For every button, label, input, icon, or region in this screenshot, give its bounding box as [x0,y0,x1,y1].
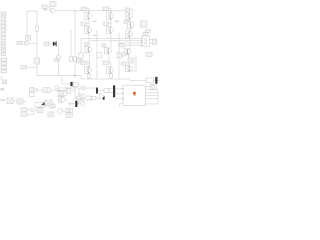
capacitor C13 [78,94,84,99]
net label K2 [146,53,152,57]
capacitor C20 [113,85,115,97]
wire [49,43,53,45]
net label NL1 [17,41,24,45]
wire [96,30,98,79]
wire [150,43,153,45]
wire [118,42,142,44]
capacitor C17 [66,108,72,112]
wire [145,103,158,105]
diode bridge D1 [7,98,13,104]
op-amp U2 [58,97,66,104]
op-amp U3 [100,93,105,99]
wire [70,30,72,57]
wire [74,11,76,76]
wire [27,10,37,12]
pin wire [145,86,150,88]
capacitor C22 [30,92,35,96]
resistor R4 [146,78,153,83]
resistor R1 [36,26,39,31]
wire [42,104,50,106]
net label J10 [1,49,6,52]
value text V4 [115,21,119,23]
resistor R8 [86,96,103,100]
net label K1top [143,33,148,36]
value text V5 [93,35,97,37]
wire [59,87,96,89]
wire [157,90,159,104]
wire [89,40,142,42]
wire [118,44,142,46]
transistor Q11 [105,33,112,63]
transistor Q21 [57,108,66,113]
diode D6 [36,88,39,91]
net label J7 [1,37,6,40]
pin wire [145,92,158,94]
wire [36,11,38,76]
transistor Q17 [126,65,133,72]
net label K1aux [146,30,151,33]
resistor R10 [79,53,84,58]
resistor R12 [117,53,122,58]
transistor Q15 [126,31,133,51]
net label J1 [1,12,7,15]
transistor Q1 [50,8,55,13]
net label J2 [1,16,7,19]
ground GND1 [2,76,7,84]
capacitor C18 [66,113,72,117]
diode bridge D5 [30,88,35,92]
transistor Q19 [63,92,67,96]
wire [57,44,59,55]
net label NL9 [21,112,34,116]
net label NL7 [121,62,127,66]
diode D4 [41,102,45,105]
net label J8 [1,41,6,44]
net label J4 [1,24,7,27]
resistor R7 [40,88,59,93]
pin wire [145,98,158,100]
wire [80,39,82,54]
wire [75,10,89,12]
capacitor C2 [50,2,56,7]
transistor Q10 [107,27,114,34]
net label NL5 [120,44,125,47]
capacitor C14 [78,99,84,104]
relay K1 [141,36,150,47]
capacitor C16 [70,102,73,106]
pin wire [145,89,158,91]
net label NL3 [44,42,49,46]
net label P4 [1,70,7,73]
net label B5 [103,7,111,13]
net label IN [42,5,47,9]
wire [13,100,17,102]
wire [48,3,51,5]
transistor Q16 [124,48,131,65]
connector X1 [153,39,157,44]
value text V3 [93,21,97,23]
wire [62,76,70,84]
diode D3 [45,100,52,106]
wire [130,55,136,71]
resistor R11 [97,53,102,58]
net label J11 [1,53,6,56]
net label P3 [1,66,7,69]
capacitor C7 [141,21,148,28]
net label N1 [0,88,4,91]
resistor R9 [104,88,114,92]
capacitor C4 [77,58,82,63]
junction [65,87,66,88]
wire [29,42,37,44]
wire [68,103,75,105]
capacitor C19 [96,88,98,94]
transistor Q9 [107,11,114,27]
wire [115,88,123,90]
resistor R5 [88,73,91,79]
transistor Q2 [24,41,28,45]
wire [123,79,160,81]
wire [59,89,75,91]
capacitor C12 [48,112,54,117]
capacitor C1 [17,99,23,104]
transistor Q12 [107,67,114,74]
capacitor C21 [150,84,156,89]
junction [110,10,111,11]
wire [78,83,80,85]
wire [115,98,123,100]
junction [88,10,89,11]
value text V1 [0,99,5,101]
resistor R14 [67,89,70,93]
net label B3 [84,42,89,45]
value text V2 [44,9,48,11]
pin wire [145,95,158,97]
junction [74,75,76,77]
capacitor C6 [155,77,157,84]
wire [89,10,111,12]
junction [58,89,60,91]
wire [118,33,120,79]
wire output bus [37,76,123,79]
wire [34,89,36,91]
resistor R13 [73,82,78,87]
wire [78,88,80,94]
capacitor C5 [70,82,72,86]
wire [81,38,142,40]
transistor Q14 [127,22,134,32]
wire [65,88,67,91]
wire [47,7,49,11]
wire [23,100,27,102]
net label P2 [1,62,7,65]
wire [26,11,28,36]
net label B8 [103,61,111,67]
transistor Q3 [34,58,40,64]
net label J5 [1,28,7,31]
transistor Q4 [56,55,60,59]
net label NL2 [21,65,26,69]
IC U1 [122,85,145,105]
net label J9 [1,45,6,48]
capacitor C9 [58,91,64,96]
resistor R6 [110,73,113,79]
capacitor C3 [26,36,31,41]
capacitor C23 [50,104,56,108]
net label B1 [81,7,89,13]
resistor R3 [74,57,77,62]
wire [111,10,125,12]
net label NL6 [121,53,126,56]
resistor R2 [70,57,73,62]
transistor Q8 [85,67,92,74]
net label B2 [81,22,89,26]
transistor Q20 [81,102,85,106]
net label B9 [125,8,133,13]
net label B4 [81,61,89,67]
wire [98,89,104,91]
wire [55,10,75,12]
capacitor C11 [34,108,43,113]
net label J3 [1,20,7,23]
wire [26,66,37,68]
transistor Q5 [85,11,92,27]
transistor Q13 [126,13,133,23]
capacitor C15 [75,101,77,107]
transistor Q22 [55,86,58,89]
wire [150,39,153,41]
net label NL8 [21,108,30,112]
capacitor C8 [128,58,134,63]
net label NL10 [76,96,81,99]
polarity mark [103,96,105,99]
net label B7 [101,44,106,47]
net label NL11 [81,86,86,89]
net label NL4 [54,59,61,62]
transistor Q7 [85,46,92,67]
transistor Q6 [85,27,92,46]
wire [58,90,60,103]
wire [74,86,76,101]
LED DS1 [133,92,136,96]
net label P1 [1,58,7,61]
capacitor C10 [58,96,64,101]
transistor Q18 [30,108,34,112]
net label B10 [124,20,129,23]
transformer T1 [35,102,45,107]
wire [77,103,80,105]
junction [74,10,75,11]
wire [115,93,123,95]
wire [120,104,124,107]
wire [58,59,60,75]
net label J6 [1,33,6,36]
diode D2 [53,41,57,46]
net label B6 [103,22,111,26]
